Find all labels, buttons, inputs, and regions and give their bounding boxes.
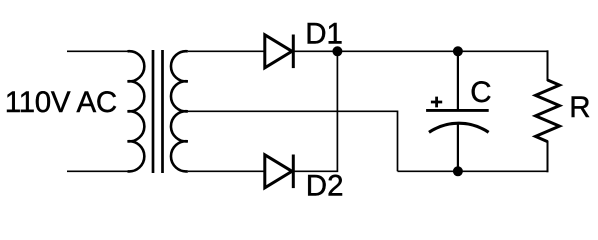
capacitor C positive plate [426, 109, 489, 112]
svg-text:D1: D1 [305, 18, 343, 51]
resistor R zigzag [536, 80, 560, 142]
capacitor plus sign [431, 97, 442, 108]
wire D2 cathode up to top node [293, 51, 337, 171]
transformer T1 primary winding [128, 51, 145, 171]
wire capacitor top lead [457, 51, 459, 109]
svg-text:D2: D2 [306, 169, 344, 202]
node capacitor top junction dot [453, 46, 463, 56]
wire resistor bottom lead [547, 142, 549, 172]
wire resistor top lead [547, 51, 549, 80]
wire top rail D1 cathode to resistor corner [293, 50, 547, 52]
diode D2 [265, 155, 294, 189]
transformer T1 core [152, 50, 155, 173]
wire primary bottom lead [67, 170, 128, 172]
diode D1 [265, 35, 294, 69]
wire center tap to bottom rail [188, 111, 398, 171]
wire secondary bottom lead to D2 [188, 170, 265, 172]
wire primary top lead [67, 50, 128, 52]
wire bottom rail [398, 170, 548, 172]
capacitor C curved negative plate [429, 123, 489, 132]
transformer T1 secondary winding [171, 51, 188, 171]
svg-text:C: C [470, 76, 491, 109]
svg-text:110V AC: 110V AC [5, 86, 117, 119]
node capacitor bottom junction dot [453, 166, 463, 176]
node D1-D2 junction dot [332, 46, 342, 56]
wire secondary top lead to D1 [188, 50, 265, 52]
wire capacitor bottom lead [457, 123, 459, 171]
svg-text:R: R [569, 91, 590, 124]
